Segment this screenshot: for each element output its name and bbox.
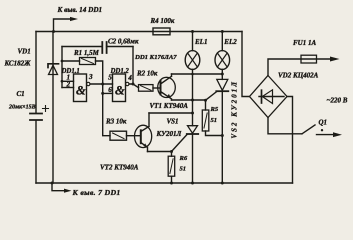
svg-text:VS2 КУ201Л: VS2 КУ201Л (231, 80, 238, 139)
svg-text:VD1: VD1 (18, 48, 31, 56)
svg-text:DD1 К176ЛА7: DD1 К176ЛА7 (134, 54, 177, 61)
svg-text:4: 4 (127, 74, 132, 82)
svg-text:&: & (115, 83, 125, 97)
resistor R1 (62, 60, 80, 62)
node EL2 / collector line (221, 73, 224, 76)
svg-text:EL1: EL1 (194, 38, 207, 46)
svg-text:DD1.1: DD1.1 (61, 68, 80, 75)
node emitter line crossing (191, 99, 194, 102)
svg-text:2: 2 (66, 80, 71, 88)
svg-text:FU1 1А: FU1 1А (293, 39, 316, 47)
capacitor C1 (30, 114, 42, 121)
lamp EL2 (221, 32, 223, 51)
svg-text:VS1: VS1 (167, 118, 179, 126)
wire VT2 collector to VS1 anode line (149, 112, 193, 114)
svg-text:~220 В: ~220 В (327, 97, 348, 105)
node emitter / R6 / VS1 gate (170, 150, 173, 153)
node pin3/R1/pin5 (101, 83, 104, 86)
svg-text:&: & (76, 83, 86, 97)
lamp EL1 (192, 32, 194, 51)
svg-text:К выв. 14 DD1: К выв. 14 DD1 (57, 6, 103, 14)
wire pin 1 (62, 80, 74, 82)
svg-text:20мк×15В: 20мк×15В (8, 105, 36, 111)
switch Q1 blade (302, 125, 315, 134)
gate DD1.2 (113, 74, 126, 102)
svg-text:VT1 КТ940А: VT1 КТ940А (150, 102, 189, 110)
node gate / R5 / emitter (204, 99, 207, 102)
svg-text:R1 1,5М: R1 1,5М (73, 49, 100, 57)
wire down to R3 (103, 93, 110, 135)
node pin6 (101, 92, 104, 95)
wire top rail (36, 31, 242, 33)
wire arrow to pin 14 DD1 (54, 19, 71, 32)
wire VS2 gate (206, 92, 217, 101)
thyristor VS2 (221, 74, 223, 79)
node R1 / input (61, 60, 64, 63)
wire bridge bottom to switch Q1 (268, 118, 302, 134)
transistor VT2 (135, 125, 152, 147)
svg-text:К выв. 7 DD1: К выв. 7 DD1 (72, 188, 121, 197)
resistor R4 (153, 28, 170, 35)
diode inside VD2 (259, 96, 284, 98)
svg-text:C1: C1 (17, 90, 25, 98)
wire C2 to DD1.2 output (132, 47, 134, 85)
svg-text:R2 10к: R2 10к (136, 70, 158, 78)
svg-text:3: 3 (88, 73, 93, 81)
node R5 / VS2 line (221, 134, 224, 137)
node bottom rail / pin7 tap (51, 182, 54, 185)
node top rail / VD1 (52, 30, 55, 33)
svg-text:DD1.2: DD1.2 (110, 68, 130, 75)
wire Q1 arrow (317, 134, 334, 136)
wire VT1 emitter line (172, 99, 206, 101)
svg-text:VD2 КЦ402А: VD2 КЦ402А (278, 72, 319, 80)
capacitor C2 (62, 46, 102, 48)
wire pin5-pin6 tie (103, 84, 113, 93)
plus sign of C1 (43, 106, 49, 112)
svg-text:R3 10к: R3 10к (105, 117, 127, 125)
wire bottom rail (36, 182, 293, 184)
wire VD1 branch vertical (52, 32, 54, 184)
svg-text:6: 6 (108, 86, 112, 94)
wire EL1 to VS1 anode (192, 74, 194, 126)
resistor R3 (110, 131, 127, 140)
node pin4 / C2 (132, 83, 135, 86)
wire pin 3 output (90, 83, 113, 85)
svg-text:EL2: EL2 (223, 38, 237, 46)
svg-text:5: 5 (108, 74, 112, 82)
resistor R5 (205, 100, 207, 110)
node pin1 (61, 80, 64, 83)
bridge VD2 diamond (250, 76, 288, 118)
wire arrow to pin 7 DD1 (52, 183, 64, 191)
wire VT2 emitter line (148, 151, 172, 153)
wire VT1 collector line (172, 73, 223, 75)
svg-text:R6: R6 (179, 155, 188, 162)
wire input node vertical (pins 1,2 / R1 / C2) (61, 47, 63, 88)
wire pin 2 (62, 87, 74, 89)
wire right drop to bridge (242, 32, 250, 97)
svg-text:R5: R5 (210, 106, 219, 113)
svg-text:КС182Ж: КС182Ж (4, 60, 32, 68)
fuse FU1 (301, 55, 317, 63)
svg-text:R4 100к: R4 100к (150, 17, 175, 25)
svg-text:C2 0,68мк: C2 0,68мк (108, 38, 139, 46)
node VT2 collector line (191, 112, 194, 115)
transistor VT1 (158, 77, 176, 97)
resistor R6 (171, 152, 173, 157)
gate DD1.1 (74, 74, 87, 102)
svg-text:51: 51 (211, 117, 218, 124)
svg-text:Q1: Q1 (319, 119, 328, 127)
svg-text:КУ201Л: КУ201Л (156, 130, 182, 138)
wire VS1 gate (172, 135, 188, 152)
wire pin 4 output (129, 84, 139, 88)
thyristor VS1 (188, 126, 198, 134)
wire bridge top to fuse (268, 59, 330, 76)
resistor R2 (139, 85, 154, 92)
node EL1 line / collector line (191, 73, 194, 76)
svg-text:VT2 КТ940А: VT2 КТ940А (100, 164, 139, 172)
wire bridge right corner down to rail (287, 97, 293, 184)
zener VD1 (48, 64, 59, 75)
wire left rail (C1 branch) (35, 32, 37, 184)
svg-text:51: 51 (180, 165, 187, 172)
